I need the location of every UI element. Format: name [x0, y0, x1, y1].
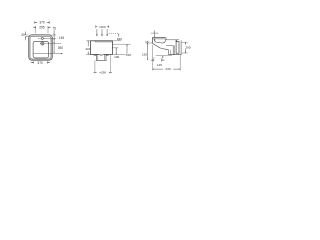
side bowl curve — [154, 39, 165, 43]
dim 135 — [146, 42, 153, 44]
dim 290 — [182, 41, 188, 43]
svg-text:≈290: ≈290 — [99, 71, 106, 75]
section line with arrow — [33, 53, 62, 55]
svg-text:370: 370 — [37, 61, 43, 65]
rim step — [165, 38, 167, 40]
svg-text:145: 145 — [59, 36, 65, 40]
dim 295 — [35, 26, 37, 29]
svg-text:≈200: ≈200 — [99, 25, 106, 29]
fixing hook — [176, 40, 177, 41]
svg-text:145: 145 — [157, 63, 162, 67]
dim approx290 — [94, 61, 96, 74]
side shell underside — [153, 43, 169, 49]
dim 430 — [152, 45, 154, 71]
svg-text:370: 370 — [39, 21, 45, 25]
dim 15 — [154, 30, 156, 36]
svg-text:290: 290 — [185, 45, 190, 49]
svg-text:295: 295 — [39, 25, 45, 29]
dim 145 — [153, 57, 155, 62]
side back ledge — [166, 39, 179, 41]
front main outline — [90, 41, 112, 55]
plan rim inner outline — [30, 36, 51, 59]
dim 150 supply — [109, 33, 119, 35]
tap hole leader — [38, 37, 56, 39]
trap and outlet — [168, 50, 170, 55]
plan right dim chain 75/145/390 — [52, 34, 56, 36]
svg-text:100: 100 — [114, 55, 119, 59]
dim 370 top — [34, 21, 36, 24]
svg-text:75: 75 — [52, 27, 56, 31]
side rim top — [152, 37, 165, 39]
svg-text:400: 400 — [85, 47, 90, 51]
supply arrows — [96, 29, 98, 34]
plan bowl outline — [33, 41, 49, 58]
svg-text:390: 390 — [58, 46, 64, 50]
side rim inner — [152, 38, 165, 40]
dim approx200 — [95, 25, 97, 28]
wall line — [180, 40, 182, 55]
svg-text:150: 150 — [126, 53, 131, 57]
dim 400 — [86, 40, 90, 42]
dim 150 right lower — [112, 43, 130, 45]
svg-text:430: 430 — [165, 67, 170, 71]
small up arrow under basin — [162, 56, 163, 58]
dim 100 right — [112, 47, 118, 49]
dim 370 bottom — [33, 61, 35, 64]
svg-text:20: 20 — [21, 33, 25, 37]
drain hole — [41, 42, 44, 45]
side front face — [152, 38, 154, 44]
hidden line under basin — [156, 54, 172, 56]
svg-text:50: 50 — [99, 53, 103, 57]
dim 50 — [94, 54, 97, 56]
drain leader — [40, 42, 61, 44]
plan outer outline — [29, 35, 52, 60]
front rim line — [95, 41, 112, 43]
svg-text:150: 150 — [117, 37, 122, 41]
drain vertical centerline — [41, 41, 43, 45]
svg-text:135: 135 — [142, 53, 147, 57]
tap hole — [41, 37, 43, 39]
svg-text:15: 15 — [145, 40, 149, 44]
wall bracket — [176, 42, 179, 54]
pedestal / trap cover — [95, 54, 97, 60]
